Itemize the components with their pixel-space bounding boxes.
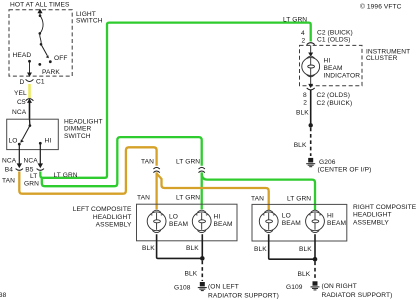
wire TAN branch to right LO beam (157, 174, 269, 211)
svg-text:RADIATOR SUPPORT): RADIATOR SUPPORT) (322, 292, 393, 299)
junction dot cluster (309, 123, 313, 127)
svg-text:BEAM: BEAM (327, 220, 346, 227)
svg-text:LT GRN: LT GRN (287, 196, 311, 203)
svg-text:GRN: GRN (24, 181, 39, 188)
svg-text:2: 2 (302, 38, 306, 45)
connector D/C1 arcs (26, 79, 34, 81)
svg-text:C2 (BUICK): C2 (BUICK) (317, 100, 353, 107)
PARK contact dot (38, 63, 41, 66)
svg-text:RIGHT COMPOSITE: RIGHT COMPOSITE (353, 204, 417, 211)
svg-text:LT: LT (30, 173, 37, 180)
dimmer LO contact dot (18, 143, 21, 146)
svg-text:BLK: BLK (142, 245, 155, 252)
svg-text:LT GRN: LT GRN (176, 195, 200, 202)
svg-text:HI: HI (214, 214, 221, 221)
svg-text:C1 (OLDS): C1 (OLDS) (317, 36, 351, 43)
svg-text:HOT AT ALL TIMES: HOT AT ALL TIMES (10, 1, 70, 8)
wire BLK cluster down (310, 90, 312, 125)
cluster connector arc bottom (307, 88, 315, 90)
right LO beam bulb (259, 210, 278, 232)
wire LT GRN branch to left HI beam (42, 137, 202, 186)
svg-text:TAN: TAN (2, 178, 15, 185)
svg-text:© 1996 VFTC: © 1996 VFTC (360, 2, 402, 10)
svg-text:(ON RIGHT: (ON RIGHT (322, 283, 357, 290)
connector left LO (two arcs) (153, 167, 159, 169)
connector left HI (two arcs) (199, 167, 205, 169)
svg-text:LT GRN: LT GRN (176, 159, 200, 166)
light switch contact dots (39, 14, 42, 17)
svg-text:NCA: NCA (2, 158, 17, 165)
svg-text:TAN: TAN (141, 159, 154, 166)
wire C5 to dimmer switch (29, 102, 31, 120)
HEAD contact dot (28, 60, 31, 63)
svg-text:BEAM: BEAM (214, 221, 233, 228)
ground G206 (306, 158, 315, 167)
svg-text:(CENTER OF I/P): (CENTER OF I/P) (318, 167, 372, 174)
wire HI contact down to B5 (39, 143, 42, 167)
dimmer wire into box (29, 119, 31, 125)
connector B4 arc (16, 169, 23, 171)
dimmer pivot dot (29, 124, 32, 127)
connector B5 arc (37, 169, 44, 171)
wire LT GRN branch to right HI beam (202, 174, 315, 211)
ground G109 (311, 281, 320, 290)
wire YEL from light switch D/C1 to C5 (28, 84, 31, 98)
cluster arrow down out of bulb (309, 76, 312, 87)
ground G108 (198, 282, 207, 291)
wire LT GRN into left HI bulb (201, 172, 203, 209)
svg-text:G206: G206 (319, 159, 336, 166)
instrument cluster dashed box (300, 45, 363, 85)
light switch wiper curve (40, 16, 43, 45)
wire BLK right HI down (314, 234, 316, 259)
wire TAN into left LO bulb (155, 172, 157, 209)
junction dot right (313, 257, 318, 262)
connector C5 arcs (26, 99, 34, 101)
svg-text:SWITCH: SWITCH (76, 17, 103, 24)
svg-text:BLK: BLK (294, 142, 307, 149)
light switch dashed box (9, 10, 72, 76)
wire BLK dashed to G108 (201, 261, 203, 281)
svg-text:BEAM: BEAM (169, 221, 188, 228)
svg-text:HEADLIGHT: HEADLIGHT (93, 214, 132, 221)
svg-text:BLK: BLK (254, 246, 267, 253)
svg-text:BLK: BLK (186, 245, 199, 252)
svg-text:8: 8 (303, 92, 307, 99)
wire HEAD output down to box edge with arrow (28, 61, 31, 76)
svg-text:C1: C1 (36, 79, 45, 86)
svg-text:TAN: TAN (251, 196, 264, 203)
svg-text:G109: G109 (286, 284, 303, 291)
wire BLK dashed to G206 (310, 128, 312, 156)
wire BLK right LO down (269, 234, 315, 259)
svg-text:38: 38 (0, 292, 7, 299)
dimmer HI contact dot (39, 142, 42, 145)
svg-text:HI: HI (324, 58, 331, 65)
wire BLK dashed to G109 (314, 262, 316, 281)
svg-text:OFF: OFF (54, 55, 67, 62)
svg-text:C5: C5 (17, 99, 26, 106)
svg-text:B4: B4 (5, 166, 13, 173)
svg-text:ASSEMBLY: ASSEMBLY (96, 222, 132, 229)
wire BLK left LO down (157, 234, 203, 258)
headlight dimmer switch box (7, 119, 59, 149)
svg-text:D: D (20, 79, 25, 86)
cluster arrow down into bulb (309, 45, 312, 55)
left HI beam bulb (192, 210, 211, 232)
svg-text:BLK: BLK (299, 246, 312, 253)
svg-text:BEAM: BEAM (324, 65, 343, 72)
svg-text:BLK: BLK (185, 270, 198, 277)
svg-text:TAN: TAN (137, 195, 150, 202)
svg-text:INDICATOR: INDICATOR (324, 72, 361, 79)
wire LT GRN main: dimmer B5 up over to instrument cluster (40, 23, 310, 178)
right composite headlight assembly box (252, 204, 347, 241)
svg-text:RADIATOR SUPPORT): RADIATOR SUPPORT) (208, 293, 279, 300)
svg-text:DIMMER: DIMMER (64, 126, 91, 133)
svg-text:4: 4 (301, 30, 305, 37)
svg-text:BEAM: BEAM (282, 220, 301, 227)
svg-text:YEL: YEL (14, 90, 27, 97)
svg-text:HI: HI (327, 213, 334, 220)
svg-text:BLK: BLK (296, 109, 309, 116)
wire TAN: dimmer B4 to left LO beam connector (19, 147, 156, 193)
svg-text:SWITCH: SWITCH (64, 133, 91, 140)
svg-text:2: 2 (303, 99, 307, 106)
svg-text:HEADLIGHT: HEADLIGHT (64, 118, 103, 125)
dimmer wiper arm with arrowhead to LO (22, 126, 30, 140)
svg-text:ASSEMBLY: ASSEMBLY (353, 219, 389, 226)
svg-text:CLUSTER: CLUSTER (366, 55, 398, 62)
left composite headlight assembly box (137, 204, 238, 241)
svg-text:HEADLIGHT: HEADLIGHT (353, 212, 392, 219)
left LO beam bulb (147, 210, 166, 232)
light switch wiper arm to OFF (41, 44, 47, 55)
svg-text:LO: LO (169, 214, 178, 221)
right HI beam bulb (306, 210, 325, 232)
junction dot left (200, 256, 205, 261)
svg-text:C2 (OLDS): C2 (OLDS) (317, 92, 351, 99)
svg-text:BLK: BLK (298, 271, 311, 278)
svg-text:LEFT COMPOSITE: LEFT COMPOSITE (73, 206, 132, 213)
wire BLK left HI down (201, 234, 203, 258)
wire LO contact down to B4 (18, 144, 21, 167)
light switch battery arrow up (38, 10, 42, 16)
svg-text:G108: G108 (174, 284, 191, 291)
svg-text:LO: LO (9, 137, 18, 144)
hi beam indicator bulb (302, 56, 320, 77)
cluster connector arc top (307, 43, 315, 45)
svg-text:LT GRN: LT GRN (54, 172, 78, 179)
svg-text:LO: LO (282, 213, 291, 220)
svg-text:NCA: NCA (12, 109, 27, 116)
svg-text:HI: HI (45, 137, 52, 144)
svg-text:LT GRN: LT GRN (283, 16, 307, 23)
svg-text:NCA: NCA (24, 158, 39, 165)
svg-text:(ON LEFT: (ON LEFT (208, 284, 239, 291)
svg-text:PARK: PARK (42, 69, 60, 76)
svg-text:HEAD: HEAD (13, 52, 32, 59)
